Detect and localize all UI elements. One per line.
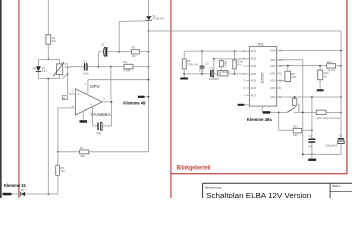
node bottom xyxy=(47,78,49,80)
svg-text:R2: R2 xyxy=(123,60,127,64)
svg-text:4k7: 4k7 xyxy=(52,39,57,43)
resistor R13 xyxy=(316,110,326,114)
resistor R3 xyxy=(131,50,139,54)
wire pot branch xyxy=(59,59,61,64)
bottom wire row xyxy=(303,153,341,155)
terminal Klemme 31 xyxy=(3,193,12,196)
red border line left (Netzteil box edge) xyxy=(18,0,20,198)
resistor R6 xyxy=(182,59,186,69)
svg-text:KT2914S0: KT2914S0 xyxy=(152,16,164,20)
svg-text:AD5: AD5 xyxy=(251,79,257,83)
svg-text:E555D: E555D xyxy=(261,72,265,83)
node top of zener/pot parallel xyxy=(47,59,49,61)
wire from node up to T1 anode wire xyxy=(118,21,120,51)
supply rail left segment xyxy=(184,50,249,52)
wire C1 to node xyxy=(87,66,98,68)
switch contact xyxy=(270,111,287,113)
capacitor C2 electrolytic top xyxy=(103,47,106,57)
ground under R10 xyxy=(317,89,324,91)
svg-text:R3: R3 xyxy=(132,46,136,50)
svg-text:2n: 2n xyxy=(63,96,67,100)
output wire node xyxy=(102,101,112,103)
wire pin13 down column xyxy=(277,59,303,61)
capacitor C5 electrolytic xyxy=(210,70,211,77)
pin6 wire down to cap xyxy=(92,107,94,126)
svg-text:AD3: AD3 xyxy=(270,86,276,90)
svg-text:D4: D4 xyxy=(21,188,25,192)
svg-text:10µ: 10µ xyxy=(96,131,101,135)
svg-text:4k7: 4k7 xyxy=(132,54,137,58)
red border Blinkgeber box right edge xyxy=(346,0,348,174)
svg-text:2k2: 2k2 xyxy=(293,133,298,137)
ground under C4 xyxy=(311,154,313,158)
svg-text:AD2: AD2 xyxy=(270,79,276,83)
svg-text:100mA: 100mA xyxy=(297,103,301,112)
wire row y74 xyxy=(184,73,210,75)
wire supply vertical left xyxy=(47,0,49,35)
frame left black border line xyxy=(0,0,2,198)
svg-text:C1: C1 xyxy=(83,59,87,63)
svg-text:56k: 56k xyxy=(80,154,85,158)
wire IC pin2 row xyxy=(214,58,250,60)
svg-text:AD0: AD0 xyxy=(270,64,276,68)
wire parallel top xyxy=(38,58,59,60)
capacitor C1 xyxy=(84,63,86,70)
wire zener branch xyxy=(37,59,39,66)
input flag pin2 xyxy=(68,93,76,95)
svg-text:R11: R11 xyxy=(293,124,298,128)
zener diode D2 xyxy=(36,66,41,71)
resistor R2 xyxy=(124,64,133,69)
svg-text:Bezeichnung: Bezeichnung xyxy=(205,185,222,189)
node output branch xyxy=(110,66,112,68)
svg-text:AD7: AD7 xyxy=(251,94,257,98)
wire switch to rail xyxy=(294,111,316,113)
wire pin3 column xyxy=(57,108,59,165)
svg-text:AD4: AD4 xyxy=(251,72,257,76)
wire pin12 row xyxy=(277,65,327,67)
wire R2 to T1 line xyxy=(133,66,149,68)
svg-text:4MHz: 4MHz xyxy=(223,60,227,68)
svg-text:5V1: 5V1 xyxy=(42,69,47,73)
potentiometer P1 xyxy=(57,64,63,75)
svg-text:Klemme 31: Klemme 31 xyxy=(4,183,27,188)
svg-text:47n: 47n xyxy=(199,69,204,73)
svg-text:AD4: AD4 xyxy=(270,95,276,99)
svg-text:R4: R4 xyxy=(80,146,84,150)
svg-text:AD2: AD2 xyxy=(251,57,257,61)
wire R1 to node xyxy=(47,44,49,59)
resistor R12 xyxy=(327,64,336,68)
node top rail xyxy=(148,30,150,32)
resistor R7 xyxy=(234,50,236,52)
resistor R5 xyxy=(56,165,60,175)
terminal Klemme 49a xyxy=(261,106,263,112)
red border Blinkgeber box bottom edge xyxy=(171,173,347,175)
svg-text:C6: C6 xyxy=(339,134,343,138)
svg-text:ZD: ZD xyxy=(33,66,37,70)
capacitor C7 feedback xyxy=(97,123,98,131)
svg-text:C4: C4 xyxy=(308,134,312,138)
wire pin14 xyxy=(277,50,341,52)
svg-text:Blinkgeberteil: Blinkgeberteil xyxy=(177,166,211,172)
diode D4 xyxy=(21,192,25,196)
capacitor C3 xyxy=(201,50,203,52)
capacitor C4 xyxy=(311,97,313,139)
pin4 ground xyxy=(82,112,84,120)
IC ground bottom left xyxy=(244,104,249,106)
wire from C2-branch node up xyxy=(98,52,100,67)
capacitor C6 electrolytic xyxy=(340,51,342,139)
svg-text:C5: C5 xyxy=(209,67,213,71)
trimmer box above X1 xyxy=(219,61,223,67)
svg-text:AD3: AD3 xyxy=(251,64,257,68)
svg-text:3k3: 3k3 xyxy=(291,75,296,79)
title block xyxy=(203,183,352,200)
svg-text:Blatt 1: Blatt 1 xyxy=(333,184,341,188)
red border line middle (Blinkgeber box left edge) xyxy=(170,0,172,198)
svg-text:Klemme 49a: Klemme 49a xyxy=(247,117,273,122)
svg-text:AD9: AD9 xyxy=(270,58,276,62)
component box X1 xyxy=(218,70,228,76)
svg-text:blau (Ko) Kontrolle: blau (Ko) Kontrolle xyxy=(317,116,341,120)
svg-text:C2: C2 xyxy=(101,43,105,47)
terminal Klemme 49 xyxy=(138,96,145,98)
IC left pin stubs xyxy=(246,65,249,67)
resistor R9 xyxy=(287,65,289,67)
svg-text:270R: 270R xyxy=(124,68,131,72)
svg-text:AD6: AD6 xyxy=(251,86,257,90)
wire parallel bottom xyxy=(38,78,59,80)
resistor R1 xyxy=(46,35,51,45)
diode T1 vertical xyxy=(148,0,150,16)
wire wiper down to op-amp pin 2 xyxy=(67,74,69,94)
wire branch down to R11 xyxy=(278,112,280,130)
svg-text:270k 1%: 270k 1% xyxy=(187,63,198,67)
svg-text:C3: C3 xyxy=(205,61,209,65)
wire pin3 xyxy=(58,107,76,109)
svg-text:1%: 1% xyxy=(237,62,242,66)
svg-text:OPV: OPV xyxy=(90,84,101,89)
resistor R4 xyxy=(80,150,89,154)
svg-text:R12: R12 xyxy=(327,60,333,64)
wire T1 line down xyxy=(148,31,150,152)
ground under R6 xyxy=(180,78,188,80)
wire bottom row xyxy=(48,193,58,195)
svg-text:IC1: IC1 xyxy=(258,42,265,47)
svg-text:11: 11 xyxy=(279,71,282,75)
IC IC1 E555D timer xyxy=(249,47,276,107)
svg-text:1µ/250V: 1µ/250V xyxy=(209,77,220,81)
wire feedback row R4 xyxy=(89,151,149,153)
op-amp OPV TAA865A xyxy=(75,89,102,115)
svg-text:Klemme 49: Klemme 49 xyxy=(123,100,146,105)
wire pin8 row xyxy=(277,96,341,98)
svg-text:AD8: AD8 xyxy=(270,49,276,53)
wire C2 to node xyxy=(107,51,119,53)
node branch to C2 top xyxy=(98,66,100,68)
resistor R11 xyxy=(293,128,301,133)
svg-text:AD1: AD1 xyxy=(251,49,257,53)
resistor R10 xyxy=(319,65,321,67)
svg-text:10n: 10n xyxy=(308,145,313,149)
svg-text:100n: 100n xyxy=(83,72,90,76)
IC right stub pin11 xyxy=(277,72,280,74)
svg-text:220µ/6V3: 220µ/6V3 xyxy=(325,143,337,147)
svg-text:2k2: 2k2 xyxy=(60,169,65,173)
svg-text:Schaltplan ELBA 12V Version: Schaltplan ELBA 12V Version xyxy=(206,193,311,198)
relay coil box xyxy=(292,99,296,106)
wire pin1 up and right to Klemme49 node xyxy=(87,80,89,94)
svg-text:AD1: AD1 xyxy=(270,71,276,75)
wire wiper stub xyxy=(62,74,67,79)
wire top rail to right xyxy=(149,30,342,32)
svg-text:TAA865A: TAA865A xyxy=(90,112,110,117)
